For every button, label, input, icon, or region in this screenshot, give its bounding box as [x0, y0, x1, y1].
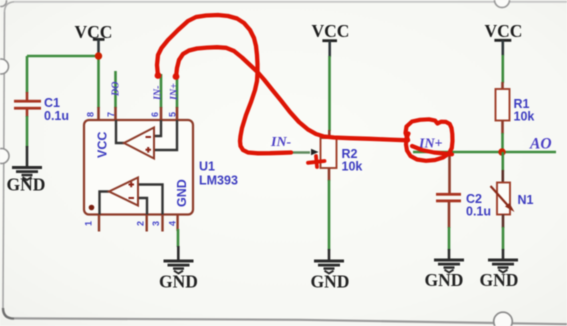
wire pin 6 (IN- net): [160, 74, 163, 108]
N1 top lead: [501, 170, 504, 183]
wiper stub wire: [292, 151, 310, 153]
svg-text:8: 8: [86, 112, 96, 117]
svg-text:AO: AO: [529, 136, 552, 153]
svg-text:GND: GND: [480, 270, 519, 290]
svg-text:VCC: VCC: [312, 21, 350, 41]
wire R2 to ground: [328, 180, 331, 250]
svg-text:VCC: VCC: [485, 21, 523, 41]
R2 bottom lead: [328, 168, 331, 181]
svg-text:LM393: LM393: [199, 174, 238, 188]
svg-text:GND: GND: [7, 175, 46, 195]
wire VCC to R1 top: [501, 55, 504, 83]
wire C1 top vertical: [26, 56, 29, 93]
wire C1 bottom lead: [26, 108, 29, 117]
pin 1 dot: [89, 205, 95, 211]
svg-text:GND: GND: [159, 272, 198, 292]
svg-text:U1: U1: [199, 160, 215, 174]
pin 1 stub wire: [98, 215, 100, 232]
R1 bottom lead: [501, 121, 504, 135]
wire op-amp B output to pin 1: [100, 192, 110, 215]
wire VCC1 horizontal to C1: [27, 55, 99, 58]
pin 5 stub: [176, 107, 179, 120]
svg-text:10k: 10k: [514, 110, 535, 124]
pin 4 stub wire: [176, 215, 178, 232]
wire AO node to N1: [501, 152, 504, 171]
pin 8 stub: [97, 107, 100, 120]
wire ground lead (R2): [328, 249, 331, 260]
ground symbol (below C1): [12, 166, 42, 169]
svg-text:0.1u: 0.1u: [466, 205, 491, 219]
svg-text:5: 5: [168, 112, 178, 117]
frame top line: [14, 1, 567, 3]
wire C1 GND black: [26, 146, 29, 166]
op-amp B triangle: [109, 178, 138, 206]
handle circle top: [495, 0, 510, 8]
svg-text:GND: GND: [175, 179, 189, 207]
red annotation stroke Q pin5 to IN+: [176, 47, 408, 140]
svg-text:C1: C1: [44, 96, 60, 110]
op-amp A minus: [146, 136, 152, 138]
wire pin 5 to op-amp A non-inverting input: [154, 120, 177, 150]
junction dot VCC1: [95, 52, 102, 59]
red annotation stroke P pin6 to wiper: [157, 15, 291, 153]
op-amp A plus: [146, 147, 152, 153]
svg-text:3: 3: [151, 221, 161, 226]
N1 bottom lead: [502, 215, 505, 229]
thermistor N1 body: [497, 183, 510, 215]
wire C1 to GND green: [26, 116, 29, 147]
red blob pin5: [173, 73, 180, 80]
ground symbol (below C2): [434, 259, 464, 262]
wire ground lead (pin 4): [177, 246, 180, 260]
svg-text:GND: GND: [425, 270, 464, 290]
frame bottom-left corner: [3, 308, 14, 319]
capacitor C2: [436, 193, 461, 196]
wire pin 4 to ground: [177, 229, 180, 247]
wire VCC to R2 top: [328, 56, 331, 131]
handle circle left lower: [0, 149, 9, 164]
pin 3 stub wire: [161, 215, 163, 232]
svg-text:1: 1: [84, 221, 94, 226]
pin 7 stub: [114, 107, 117, 120]
red blob pin6: [155, 72, 162, 79]
svg-text:4: 4: [168, 221, 178, 226]
frame bottom line: [14, 318, 567, 324]
wire R1 to AO node: [501, 133, 504, 152]
red annotation circle around IN+: [406, 119, 453, 161]
op-amp A triangle: [124, 128, 154, 159]
frame top-left corner: [5, 2, 15, 12]
wire AO horizontal: [413, 151, 556, 154]
handle circle top-left corner: [0, 0, 7, 7]
wire N1 to ground: [502, 227, 505, 250]
wire op-amp B non-inverting input to pin 3: [138, 185, 163, 215]
wire op-amp B inverting input to pin 2: [138, 198, 147, 215]
pin 2 stub wire: [145, 215, 147, 232]
capacitor C1: [14, 100, 41, 103]
red plus mark near wiper: [308, 156, 325, 167]
wire op-amp A output to pin 7: [116, 120, 124, 143]
op-amp U1 box: [84, 120, 193, 215]
svg-text:7: 7: [106, 112, 116, 117]
wire pin 5 (IN+ net): [176, 76, 179, 108]
resistor R1: [496, 89, 510, 121]
potentiometer R2 body: [321, 138, 337, 168]
wire ground lead (C2): [448, 249, 451, 259]
pin 6 stub: [160, 107, 163, 120]
junction dot AO: [498, 148, 505, 155]
handle circle left upper: [0, 59, 9, 74]
svg-text:N1: N1: [518, 193, 534, 207]
R1 top lead: [501, 82, 504, 90]
frame left line: [3, 12, 5, 308]
N1 diagonal stroke: [491, 186, 512, 209]
svg-text:VCC: VCC: [96, 132, 110, 158]
svg-text:DO: DO: [111, 82, 122, 97]
svg-text:2: 2: [136, 221, 146, 226]
ground symbol (below U1 pin 4): [164, 260, 194, 263]
wire C2 to ground: [448, 227, 451, 250]
wire C1 top lead: [26, 92, 29, 100]
C2 bottom lead: [448, 202, 451, 228]
wire pin 6 to op-amp A inverting input: [154, 120, 161, 136]
wire C2 branch: [448, 152, 451, 194]
handle circle bottom: [494, 312, 513, 326]
op-amp B plus: [129, 182, 135, 188]
svg-text:6: 6: [150, 112, 160, 117]
ground symbol (below R2): [314, 260, 344, 263]
R2 top lead: [328, 130, 331, 139]
ground symbol (below N1): [488, 259, 518, 262]
wire pin 7 (DO net): [114, 71, 117, 108]
svg-text:IN-: IN-: [270, 135, 292, 150]
wire ground lead (N1): [502, 249, 505, 259]
op-amp B minus: [129, 197, 135, 199]
svg-text:GND: GND: [311, 272, 350, 292]
svg-text:IN-: IN-: [153, 86, 164, 101]
wiper arrow: [311, 149, 319, 155]
svg-text:10k: 10k: [342, 160, 363, 174]
wire pin 8 (VCC net): [97, 56, 100, 108]
svg-text:IN+: IN+: [169, 83, 180, 101]
svg-text:0.1u: 0.1u: [44, 109, 69, 123]
